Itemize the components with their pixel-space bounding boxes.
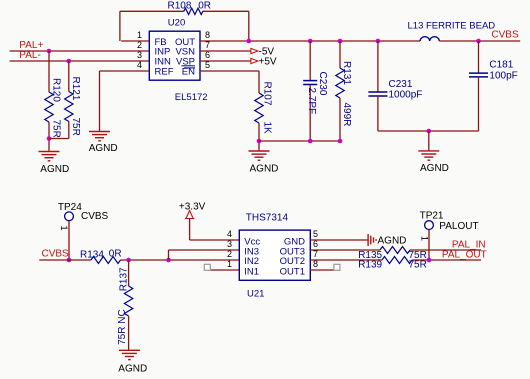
junction node R107/AGND rail: [257, 139, 262, 144]
wire EN pin 5 to R107: [200, 71, 259, 93]
label CVBS top right: [491, 30, 519, 41]
wire C181 bottom lead: [478, 77, 480, 131]
U21 pin number 2: [227, 249, 232, 259]
U21 pin number 4: [227, 229, 232, 239]
wire bead to CVBS: [439, 40, 520, 42]
resistor R137 body: [124, 286, 132, 316]
label R107: [262, 82, 273, 106]
svg-text:2: 2: [227, 249, 232, 259]
svg-text:75R: 75R: [70, 118, 81, 136]
U21 pin number 8: [313, 259, 318, 269]
resistor R108 0R body: [184, 8, 203, 14]
U20 pin name VSN: [175, 47, 195, 58]
svg-text:75R NC: 75R NC: [117, 309, 128, 345]
svg-text:0R: 0R: [109, 249, 122, 260]
wire PAL- to INN pin 3: [10, 60, 150, 62]
U21 pin number 7: [313, 249, 318, 259]
label C181: [489, 59, 513, 70]
svg-text:REF: REF: [155, 67, 174, 78]
label PALOUT: [439, 221, 478, 232]
resistor R120 body: [45, 92, 53, 122]
wire C231 top lead: [377, 41, 379, 92]
TP24 pin number 1: [59, 226, 69, 231]
svg-text:R120: R120: [50, 78, 61, 102]
junction node OUT/C230 top: [308, 39, 313, 44]
svg-text:OUT1: OUT1: [280, 266, 305, 277]
svg-text:R121: R121: [70, 77, 81, 101]
svg-text:CVBS: CVBS: [42, 249, 70, 260]
label R121: [70, 77, 81, 101]
ground AGND below R137: [119, 350, 140, 359]
junction node OUT/feedback: [247, 39, 252, 44]
U20 pin number 1: [137, 30, 142, 40]
capacitor C231 body: [368, 92, 387, 96]
inductor L13 ferrite bead body: [420, 37, 439, 41]
svg-text:499R: 499R: [341, 103, 352, 127]
U20 pin name EN with overline: [182, 67, 195, 78]
svg-text:AGND: AGND: [250, 164, 279, 175]
label R120: [50, 78, 61, 102]
svg-text:1K: 1K: [262, 122, 273, 135]
resistor R134 0R body: [91, 257, 121, 264]
wire VSP pin 6: [200, 60, 251, 62]
svg-text:1: 1: [227, 259, 232, 269]
wire C230 bottom lead: [309, 85, 311, 142]
U20 pin number 2: [137, 40, 142, 50]
junction node IN3 branch: [166, 258, 171, 263]
label 1000pF: [389, 89, 423, 100]
ground AGND rotated at GND pin: [368, 234, 376, 246]
wire R107 bottom lead: [258, 123, 260, 151]
label 75R of R121: [70, 118, 81, 136]
svg-text:U21: U21: [247, 288, 264, 299]
wire R121 bottom lead to R120: [49, 122, 69, 139]
wire GND pin 5 to rotated AGND: [310, 239, 368, 241]
ground AGND below R120: [39, 152, 60, 161]
wire R121 top lead: [68, 61, 70, 92]
label AGND below R107: [250, 164, 279, 175]
U20 pin number 4: [137, 60, 142, 70]
svg-text:C230: C230: [317, 72, 328, 96]
svg-text:1: 1: [137, 30, 142, 40]
svg-text:R108: R108: [168, 1, 192, 12]
label PAL+: [19, 40, 43, 51]
power +3.3V arrow: [185, 211, 195, 219]
label CVBS bottom left: [42, 249, 70, 260]
label AGND below R137: [118, 363, 147, 374]
junction node R131 bottom: [338, 139, 343, 144]
svg-text:1: 1: [420, 236, 430, 241]
wire AGND stub right rail: [428, 131, 430, 151]
label R108 0R: [168, 1, 211, 12]
junction node PAL- / R121: [67, 59, 72, 64]
wire R120 top lead: [48, 51, 50, 92]
wire R137 bottom lead: [128, 316, 130, 350]
ground AGND below right rail: [418, 151, 439, 160]
label 75R of R135: [409, 250, 427, 261]
resistor R121 body: [65, 92, 73, 122]
svg-text:AGND: AGND: [420, 163, 449, 174]
svg-text:AGND: AGND: [40, 164, 69, 175]
junction node OUT/R131 top: [338, 39, 343, 44]
svg-text:75R: 75R: [409, 260, 427, 271]
label C230: [317, 72, 328, 96]
label -5V: [259, 46, 275, 57]
svg-text:AGND: AGND: [118, 363, 147, 374]
U20 pin number 6: [205, 50, 210, 60]
label AGND at GND pin: [378, 235, 407, 246]
label PAL_OUT: [442, 249, 487, 260]
wire C181 top lead: [478, 41, 480, 73]
wire IN3 branch: [169, 250, 240, 260]
svg-text:AGND: AGND: [378, 235, 407, 246]
wire R131 bottom lead: [339, 98, 341, 141]
label CVBS at TP24: [81, 211, 109, 222]
svg-text:100pF: 100pF: [489, 70, 517, 81]
U20 pin name VSP: [176, 56, 195, 67]
label THS7314: [246, 213, 289, 224]
label AGND right rail: [420, 163, 449, 174]
wire C230 top lead: [309, 41, 311, 81]
U20 pin name FB: [155, 37, 167, 48]
U21 pin name OUT2: [280, 256, 305, 267]
U20 pin name OUT: [175, 37, 195, 48]
wire R131 top lead: [339, 41, 341, 68]
wire PAL+ to INP pin 2: [10, 50, 150, 52]
capacitor C181 body: [469, 73, 488, 77]
label AGND below R120: [40, 164, 69, 175]
junction node OUT/C231 top: [376, 39, 381, 44]
wire C231 bottom lead: [377, 96, 379, 131]
label 100pF: [489, 70, 517, 81]
U20 pin name INN: [155, 56, 172, 67]
svg-text:PALOUT: PALOUT: [439, 221, 478, 232]
U21 pin name OUT1: [280, 266, 305, 277]
U20 pin name REF: [155, 67, 174, 78]
U21 pin name GND: [284, 236, 305, 247]
wire TP24 to CVBS net: [68, 221, 70, 260]
U21 pin number 6: [313, 239, 318, 249]
resistor R131 body: [336, 68, 344, 98]
U21 pin name IN2: [244, 256, 259, 267]
TP21 pin number 1: [420, 236, 430, 241]
label 499R of R131: [341, 103, 352, 127]
U21 pin number 3: [227, 239, 232, 249]
U21 pin name OUT3: [280, 246, 305, 257]
label TP21: [420, 211, 444, 222]
label C231: [389, 79, 413, 90]
wire CVBS to R134: [39, 259, 91, 261]
label R131: [341, 61, 352, 85]
svg-text:U20: U20: [168, 18, 185, 29]
label 75R of R139: [409, 260, 427, 271]
test point TP21 circle: [425, 221, 434, 230]
power +5V arrow: [251, 58, 258, 64]
op-amp U20 body EL5172: [149, 31, 200, 80]
junction node TP24/CVBS: [67, 258, 72, 263]
svg-text:IN1: IN1: [244, 266, 259, 277]
resistor R135 body: [380, 247, 410, 254]
svg-text:1: 1: [59, 226, 69, 231]
wire R137 top lead: [128, 260, 130, 286]
label +3.3V: [179, 201, 206, 212]
op-amp U21 body THS7314: [239, 230, 310, 280]
wire bottom rail C231 to C181: [378, 130, 479, 132]
wire OUT net pin 8 to ferrite bead: [200, 40, 420, 42]
label 75R of R120: [50, 120, 61, 138]
svg-text:CVBS: CVBS: [491, 30, 519, 41]
ground AGND below R107: [249, 151, 270, 160]
svg-text:R134: R134: [80, 249, 104, 260]
U21 pin name IN1: [244, 266, 259, 277]
U21 pin name IN3: [244, 246, 259, 257]
svg-text:AGND: AGND: [89, 143, 118, 154]
svg-text:2.7PF: 2.7PF: [306, 88, 317, 115]
wire OUT2 pin 7 to R139: [310, 259, 382, 261]
wire VSN pin 7: [200, 50, 251, 52]
wire TP21 to PAL_OUT net: [428, 230, 430, 260]
junction node C230 bottom: [308, 139, 313, 144]
wire feedback loop from FB pin up over U20 to OUT net: [120, 11, 249, 41]
label 75R NC of R137: [117, 309, 128, 345]
svg-text:PAL_OUT: PAL_OUT: [442, 249, 487, 260]
U20 pin number 7: [205, 40, 210, 50]
svg-text:+5V: +5V: [259, 56, 277, 67]
svg-text:EL5172: EL5172: [175, 92, 208, 103]
label 1K of R107: [262, 122, 273, 135]
label +5V: [259, 56, 277, 67]
test point TP24 circle: [65, 212, 74, 221]
ground AGND at REF: [89, 132, 110, 141]
junction node R120/R121 join: [47, 136, 52, 141]
junction node TP21/PAL_OUT: [427, 258, 432, 263]
resistor R107 body: [255, 93, 263, 123]
wire +3.3V to Vcc pin 4: [190, 219, 240, 241]
label AGND at REF: [89, 143, 118, 154]
svg-text:CVBS: CVBS: [81, 211, 109, 222]
U20 pin number 8: [205, 30, 210, 40]
junction node R137 branch: [126, 258, 131, 263]
svg-text:4: 4: [227, 229, 232, 239]
label 2.7PF: [306, 88, 317, 115]
label R137: [118, 267, 129, 291]
U21 pin name Vcc: [244, 236, 260, 247]
wire IN1 pin 1 stub: [211, 269, 240, 271]
wire bottom rail C230 R131: [259, 140, 340, 142]
no-connect marker at IN1: [204, 264, 210, 270]
U20 pin number 3: [137, 50, 142, 60]
power -5V arrow: [251, 48, 258, 54]
svg-text:R137: R137: [118, 267, 129, 291]
junction node CVBS/C181: [476, 39, 481, 44]
label TP24: [58, 202, 82, 213]
svg-text:R139: R139: [358, 260, 382, 271]
label EL5172: [175, 92, 208, 103]
junction node PAL+ / R120: [47, 49, 52, 54]
svg-text:1000pF: 1000pF: [389, 89, 423, 100]
label R135: [358, 250, 382, 261]
label R134: [80, 249, 104, 260]
no-connect marker at OUT1: [334, 264, 340, 270]
svg-text:C181: C181: [489, 59, 513, 70]
wire OUT1 pin 8 stub: [310, 269, 334, 271]
svg-text:8: 8: [205, 30, 210, 40]
wire R139 to PAL_OUT: [412, 259, 481, 261]
svg-text:TP24: TP24: [58, 202, 82, 213]
wire OUT3 pin 6 to R135: [310, 249, 380, 251]
wire R135 to PAL_IN: [410, 249, 481, 251]
wire FB pin 1: [121, 40, 149, 42]
svg-text:R107: R107: [262, 82, 273, 106]
capacitor C230 body: [303, 81, 317, 85]
label U20: [168, 18, 185, 29]
svg-text:5: 5: [313, 229, 318, 239]
wire R134 to IN2 pin 2: [121, 259, 240, 261]
svg-text:R131: R131: [341, 61, 352, 85]
label PAL_IN: [452, 240, 486, 251]
svg-text:L13 FERRITE BEAD: L13 FERRITE BEAD: [408, 21, 496, 32]
svg-text:0R: 0R: [198, 1, 211, 12]
svg-text:75R: 75R: [50, 120, 61, 138]
svg-text:+3.3V: +3.3V: [179, 201, 206, 212]
label L13 FERRITE BEAD: [408, 21, 496, 32]
junction node AGND rail right: [427, 129, 432, 134]
U20 pin name INP: [155, 47, 171, 58]
U21 pin number 1: [227, 259, 232, 269]
wire REF pin 4 to ground: [100, 71, 150, 132]
label R139: [358, 260, 382, 271]
resistor R139 body: [382, 257, 412, 264]
label U21: [247, 288, 264, 299]
svg-text:3: 3: [227, 239, 232, 249]
U20 pin number 5: [205, 60, 210, 70]
label 0R of R134: [109, 249, 122, 260]
svg-text:THS7314: THS7314: [246, 213, 289, 224]
wire R120 bottom lead: [48, 122, 50, 152]
U21 pin number 5: [313, 229, 318, 239]
label PAL-: [19, 50, 41, 61]
